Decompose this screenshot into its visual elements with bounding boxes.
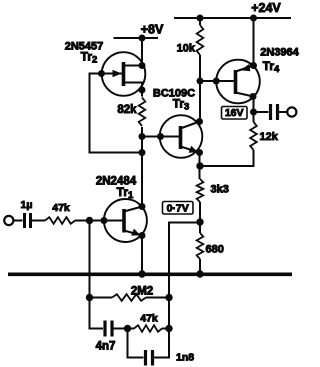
node: 2M2 right junction bbox=[166, 294, 172, 300]
resistor 10k bbox=[197, 25, 204, 55]
svg-text:680: 680 bbox=[206, 244, 224, 256]
resistor 47k (feedback) bbox=[128, 325, 170, 332]
svg-text:4n7: 4n7 bbox=[96, 341, 116, 353]
resistor 82k bbox=[139, 98, 146, 127]
svg-text:3k3: 3k3 bbox=[211, 184, 229, 196]
transistor Tr3 (BC109C NPN) bbox=[158, 115, 203, 158]
resistor 2M2 bbox=[90, 294, 170, 301]
wire: Tr1 emitter to ground bbox=[141, 236, 143, 275]
input terminal bbox=[4, 216, 13, 225]
node: bootstrap/gate junction bbox=[139, 150, 145, 156]
wire: 680 to ground bbox=[199, 259, 201, 274]
node: Tr3 base junction bbox=[139, 134, 145, 140]
resistor 47k (input) bbox=[45, 217, 75, 224]
0.7V boxed label bbox=[163, 202, 194, 215]
svg-text:47k: 47k bbox=[140, 313, 158, 325]
svg-text:0·7V: 0·7V bbox=[167, 202, 189, 214]
svg-text:82k: 82k bbox=[117, 104, 137, 116]
wire: Tr4 collector down bbox=[253, 97, 255, 123]
wire: 1n8 branch right bbox=[154, 223, 200, 358]
ground rail bbox=[8, 272, 292, 276]
svg-text:2N3964: 2N3964 bbox=[260, 47, 299, 59]
wire: 3k3 to 680 bbox=[199, 202, 201, 233]
node: Tr1 base/feedback junction bbox=[86, 217, 92, 223]
wire: output tap bbox=[254, 111, 269, 113]
resistor 680 bbox=[197, 233, 204, 259]
node: +8V/Tr2 drain junction bbox=[139, 35, 145, 41]
svg-text:12k: 12k bbox=[260, 131, 279, 143]
node: Tr3 emitter/12k/3k3 junction bbox=[197, 163, 203, 169]
16V boxed label bbox=[222, 107, 248, 120]
capacitor (output) bbox=[271, 104, 288, 120]
wire: Tr2 gate loop bbox=[90, 74, 143, 153]
svg-text:47k: 47k bbox=[52, 202, 70, 214]
wire: Tr2 drain to +8V bbox=[141, 38, 143, 66]
wire: Tr4 emitter to +24V bbox=[253, 18, 255, 66]
svg-text:2M2: 2M2 bbox=[131, 286, 153, 298]
output terminal bbox=[287, 107, 296, 116]
node: 4n7/47k/1n8 junction bbox=[124, 325, 130, 331]
wire: cap to 47k bbox=[32, 220, 45, 222]
node: output tap junction bbox=[251, 109, 257, 115]
node: 2M2 left junction bbox=[86, 294, 92, 300]
wire: 10k top bbox=[199, 18, 201, 25]
wire: 47k to Tr1 base bbox=[75, 220, 104, 222]
wire: input to cap bbox=[13, 220, 23, 222]
transistor Tr1 (2N2484 NPN) bbox=[101, 199, 147, 242]
transistor Tr2 (2N5457 JFET) bbox=[99, 52, 146, 96]
node: 10k/Tr4 base/Tr3 collector junction bbox=[197, 78, 203, 84]
wire: 10k bottom to Tr3 collector bbox=[199, 55, 201, 122]
svg-text:10k: 10k bbox=[177, 43, 196, 55]
wire: 12k bottom to Tr3 emitter junction bbox=[200, 150, 254, 166]
wire: feedback left leg bbox=[90, 221, 104, 329]
wire: 82k bottom down to Tr1 collector bbox=[141, 127, 143, 207]
capacitor 1n8 bbox=[146, 350, 153, 366]
+8V rail bbox=[114, 37, 159, 39]
svg-text:+8V: +8V bbox=[141, 23, 164, 37]
resistor 12k bbox=[250, 122, 257, 150]
node: Tr1 emitter/ground bbox=[139, 271, 145, 277]
capacitor 4n7 bbox=[105, 321, 128, 337]
node: +24V/10k junction bbox=[197, 15, 203, 21]
transistor Tr4 (2N3964 PNP) bbox=[200, 60, 260, 104]
+24V rail bbox=[174, 17, 291, 19]
node: 680/ground bbox=[197, 271, 203, 277]
svg-text:1µ: 1µ bbox=[21, 199, 33, 211]
node: 47k right junction bbox=[166, 325, 172, 331]
wire: Tr3 emitter down bbox=[199, 153, 201, 180]
svg-text:16V: 16V bbox=[225, 107, 244, 119]
node: +24V/Tr4 emitter junction bbox=[251, 15, 257, 21]
svg-text:+24V: +24V bbox=[251, 1, 281, 15]
wire: 1n8 branch left bbox=[128, 329, 144, 358]
capacitor 1u bbox=[25, 213, 31, 228]
node: 0.7V junction (3k3/680/feedback) bbox=[197, 219, 203, 225]
wire: junction to Tr3 base bbox=[142, 136, 161, 138]
svg-text:1n8: 1n8 bbox=[176, 352, 194, 364]
resistor 3k3 bbox=[197, 179, 204, 202]
